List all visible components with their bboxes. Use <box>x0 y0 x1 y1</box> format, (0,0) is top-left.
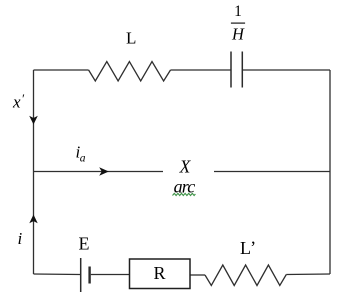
arrowhead i up <box>29 215 37 224</box>
wire right vertical <box>329 70 331 274</box>
svg-text:L’: L’ <box>240 237 256 258</box>
wire battery to resistor box <box>91 274 130 276</box>
svg-text:R: R <box>153 263 165 283</box>
svg-text:L: L <box>126 29 136 48</box>
svg-text:X: X <box>179 156 192 176</box>
wire resistor box to inductor L' <box>190 274 205 276</box>
label 1/H fraction <box>231 3 245 43</box>
wire middle right segment <box>214 171 330 173</box>
inductor L <box>89 62 171 82</box>
svg-text:a: a <box>80 153 86 165</box>
inductor L' <box>205 265 286 286</box>
svg-text:x: x <box>12 93 21 112</box>
wire L' to bottom-right corner <box>286 273 330 276</box>
arrowhead i_a right <box>99 167 109 175</box>
svg-text:E: E <box>79 234 90 254</box>
wire top-left horizontal <box>34 69 89 71</box>
svg-text:′: ′ <box>21 91 24 106</box>
wire left vertical <box>33 70 35 274</box>
wire middle left segment <box>34 171 164 173</box>
battery E plates <box>81 258 90 292</box>
wire top middle to capacitor <box>171 69 231 71</box>
arc wavy underline <box>173 193 196 195</box>
svg-text:i: i <box>18 229 23 248</box>
wire bottom-left to battery <box>34 273 81 276</box>
arrowhead x' down <box>29 116 38 125</box>
resistor R box <box>130 259 191 289</box>
svg-text:1: 1 <box>234 3 242 20</box>
wire capacitor to top-right corner <box>243 69 331 71</box>
svg-text:H: H <box>231 24 245 43</box>
capacitor C plates <box>231 52 242 88</box>
